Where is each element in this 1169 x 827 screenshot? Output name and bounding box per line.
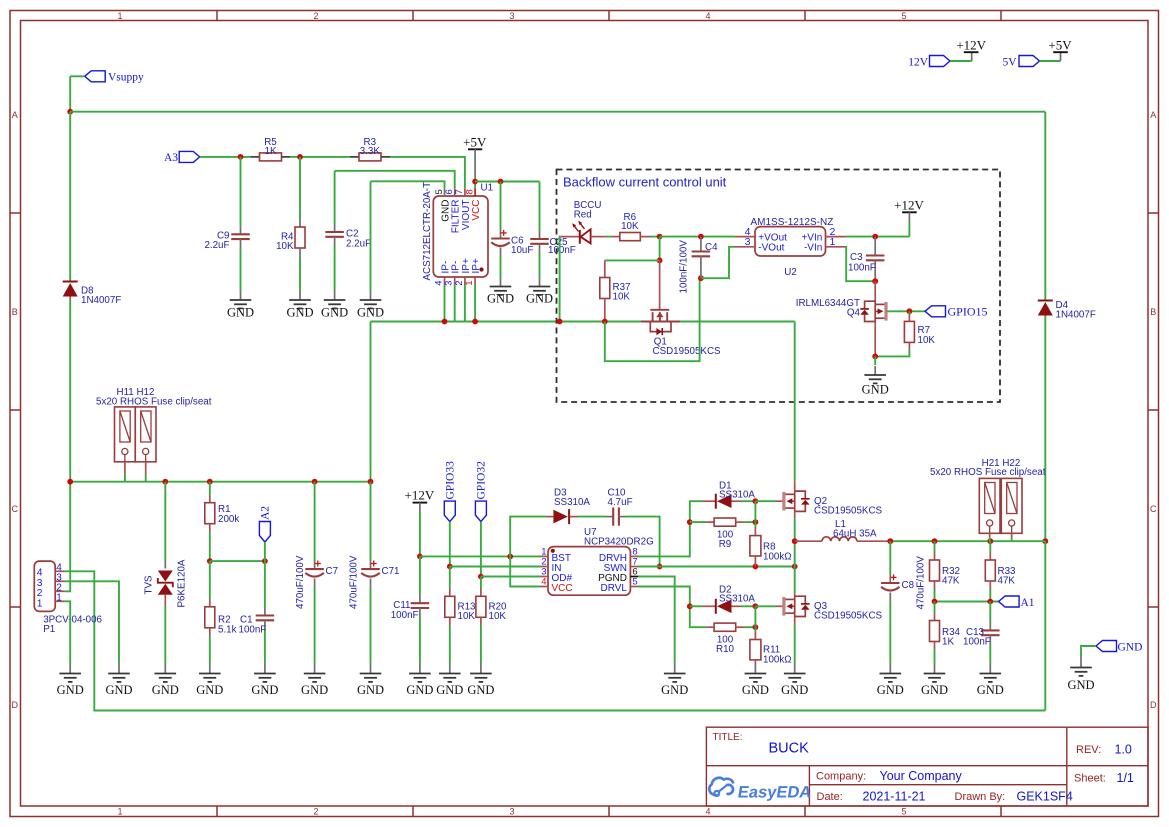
wire DRVL to gate loop — [638, 587, 706, 628]
svg-text:5: 5 — [632, 577, 637, 588]
node junction SWN switch column — [792, 564, 798, 570]
node junction L1 left — [792, 538, 798, 544]
svg-text:10K: 10K — [613, 292, 631, 303]
svg-text:3: 3 — [509, 11, 514, 21]
wire GPIO33 to IN — [449, 522, 451, 567]
wire top supply rail — [70, 111, 1045, 113]
ground P1 pin3 — [118, 664, 120, 674]
label C7 470uF/100V — [295, 555, 338, 609]
svg-text:+12V: +12V — [956, 38, 986, 53]
svg-text:SS310A: SS310A — [554, 497, 590, 508]
U1 pin numbers 5 6 7 8 — [434, 189, 476, 194]
svg-text:A2: A2 — [260, 506, 272, 520]
label D2 SS310A — [719, 584, 755, 604]
wire H11 lead to input rail — [124, 462, 126, 482]
wire led cathode down to sense path — [559, 237, 562, 322]
svg-text:2.2uF: 2.2uF — [204, 240, 229, 251]
label C4 100nF/100V — [679, 240, 719, 294]
wire GPIO32 to OD# — [480, 522, 482, 577]
node junction R9 left — [687, 519, 693, 525]
wire to Q3 gate — [755, 605, 776, 607]
svg-text:10K: 10K — [489, 611, 507, 622]
svg-text:1/1: 1/1 — [1117, 771, 1134, 785]
resistor R37 — [600, 260, 610, 321]
label C13 100nF — [963, 627, 991, 648]
node junction R33 tap — [987, 538, 993, 544]
svg-text:10K: 10K — [458, 611, 476, 622]
wire D8 branch down — [69, 112, 71, 282]
wire 12V flag to +12V — [950, 60, 972, 62]
node junction R10 out — [753, 624, 759, 630]
svg-text:10uF: 10uF — [511, 245, 533, 256]
svg-text:VCC: VCC — [552, 583, 573, 594]
node junction pin4 path — [442, 319, 448, 325]
ground under C9 — [240, 291, 242, 300]
resistor R11 — [750, 627, 761, 663]
net flag A2 — [259, 506, 271, 561]
capacitor C11 — [411, 556, 430, 663]
svg-text:GND: GND — [1067, 678, 1094, 692]
power symbol +12V at U7 — [405, 488, 435, 557]
svg-text:1: 1 — [830, 236, 836, 248]
node junction R9 out — [753, 519, 759, 525]
resistor R8 — [750, 522, 761, 566]
wire IN net — [450, 566, 541, 568]
diode D1 — [702, 494, 755, 509]
svg-text:C: C — [1150, 504, 1157, 514]
wire R5 to R3 — [290, 156, 350, 158]
node junction C71 rail — [368, 479, 374, 485]
svg-text:IP+: IP+ — [471, 258, 482, 273]
U7 right pin stubs — [630, 556, 638, 586]
resistor R7 — [875, 311, 914, 356]
wire H21 lead to rail — [989, 533, 992, 541]
resistor R5 — [251, 153, 290, 161]
svg-text:1: 1 — [56, 592, 62, 603]
wire BST branch up to D3 — [510, 517, 546, 557]
svg-text:3: 3 — [745, 236, 751, 248]
regulator U2 AM1SS-1212S-NZ body — [755, 227, 826, 256]
U1 pin names IP- IP- IP+ IP+ — [440, 258, 482, 273]
label C8 470uF/100V — [902, 556, 927, 610]
svg-text:Drawn By:: Drawn By: — [955, 791, 1006, 803]
node junction Q1 drain R37 — [657, 258, 663, 264]
node junction gate R7 — [907, 308, 913, 314]
fuse clip H11 — [115, 407, 136, 462]
diode D4 — [1038, 301, 1053, 316]
wire bottom return rail — [65, 571, 1045, 710]
svg-text:GND: GND — [152, 683, 179, 697]
svg-text:GND: GND — [251, 683, 278, 697]
label C2 2.2uF — [346, 229, 371, 250]
node junction Q4 source — [872, 354, 878, 360]
svg-text:GND: GND — [742, 683, 769, 697]
svg-text:5: 5 — [901, 11, 906, 21]
wire SWN net — [638, 566, 795, 568]
svg-text:1.0: 1.0 — [1115, 743, 1132, 757]
U2 pin names — [758, 232, 822, 253]
U7 pin numbers left 1 2 3 4 — [541, 546, 546, 587]
svg-text:+5V: +5V — [1048, 38, 1072, 53]
wire P1 pin3 to ground — [65, 581, 119, 663]
svg-text:10K: 10K — [918, 335, 936, 346]
title block — [706, 727, 1148, 806]
label R1 200k — [218, 504, 239, 525]
svg-text:470uF/100V: 470uF/100V — [916, 556, 927, 610]
wire +5V to C6 C25 — [475, 181, 539, 183]
resistor R2 — [205, 561, 215, 663]
wire D4 to output rail — [1044, 316, 1046, 542]
svg-text:CSD19505KCS: CSD19505KCS — [814, 610, 883, 621]
svg-text:64uH 35A: 64uH 35A — [833, 529, 877, 540]
label D4 1N4007F — [1056, 300, 1096, 321]
svg-text:GND: GND — [406, 683, 433, 697]
resistor R9 — [706, 518, 755, 526]
capacitor C4 — [692, 237, 711, 279]
fuse clip H12 — [135, 407, 156, 462]
ground pin5 branch — [370, 291, 372, 300]
svg-text:C3: C3 — [850, 252, 863, 263]
svg-text:5x20 RHOS Fuse clip/seat: 5x20 RHOS Fuse clip/seat — [930, 467, 1046, 478]
ground backflow — [874, 366, 876, 375]
ground under C2 — [334, 291, 336, 300]
wire D2 left branch — [690, 605, 702, 607]
label R8 100kOhm — [763, 542, 792, 563]
svg-text:SS310A: SS310A — [719, 490, 755, 501]
svg-text:Backflow current control unit: Backflow current control unit — [563, 175, 727, 190]
U7 pin names right — [598, 553, 627, 594]
svg-text:GND: GND — [357, 306, 384, 320]
ground under PGND — [674, 664, 676, 674]
diode D8 — [63, 282, 78, 301]
label C71 470uF/100V — [349, 555, 400, 609]
capacitor C3 — [866, 237, 885, 282]
label C6 10uF — [511, 236, 533, 257]
wire R1 bottom to C1 — [210, 560, 265, 562]
wire H22 lead to rail — [1011, 533, 1013, 541]
svg-text:+12V: +12V — [405, 488, 435, 503]
U1 pin names GND FILTER VIOUT VCC — [440, 200, 482, 234]
wire DRVH to gate loop — [638, 501, 702, 556]
transistor Q3 CSD19505KCS — [776, 594, 810, 626]
svg-text:A3: A3 — [164, 152, 178, 164]
svg-text:GND: GND — [1118, 641, 1143, 653]
label R5 1K — [264, 137, 277, 157]
svg-text:1N4007F: 1N4007F — [81, 295, 121, 306]
capacitor C13 — [981, 602, 1000, 664]
svg-text:GND: GND — [301, 683, 328, 697]
title block texts — [713, 732, 1134, 804]
svg-text:47K: 47K — [942, 576, 960, 587]
wire input rail — [70, 481, 370, 483]
net flag A1 — [999, 596, 1035, 609]
wire D3 to C10 — [578, 516, 606, 518]
ground under R20 — [480, 664, 482, 674]
ground under Q3 — [794, 664, 796, 674]
svg-text:GPIO32: GPIO32 — [476, 461, 488, 500]
wire A3 to R5 — [200, 156, 251, 158]
capacitor C71 — [361, 482, 380, 664]
ground under R11 — [754, 664, 756, 674]
svg-text:GND: GND — [105, 683, 132, 697]
wire to Q2 gate — [755, 500, 776, 502]
wire R6 to C4 and U2 — [660, 236, 735, 238]
svg-text:GND: GND — [877, 683, 904, 697]
node junction C9 tap — [238, 154, 244, 160]
svg-text:VCC: VCC — [471, 200, 482, 221]
svg-text:-VOut: -VOut — [758, 243, 784, 254]
svg-text:100kΩ: 100kΩ — [763, 654, 792, 665]
wire C2 to U1 pin6 — [335, 171, 455, 189]
wire path down to input rail — [370, 322, 372, 482]
svg-text:1N4007F: 1N4007F — [1056, 310, 1096, 321]
svg-text:100nF: 100nF — [548, 245, 576, 256]
TVS diode P6KE120A — [158, 571, 173, 664]
U1 bottom pin stubs — [445, 277, 476, 285]
svg-text:47K: 47K — [998, 576, 1016, 587]
label R6 10K — [621, 212, 639, 232]
wire D1 to R9 vertical — [754, 501, 756, 522]
ground under TVS — [164, 664, 166, 674]
ground under R34 — [934, 664, 936, 674]
node junction D2 out — [753, 603, 759, 609]
power symbol +12V backflow — [894, 197, 924, 236]
svg-text:GND: GND — [487, 292, 514, 306]
wire D8 to P1 pin2 — [65, 300, 70, 591]
svg-text:A: A — [1150, 110, 1156, 120]
U7 left pin stubs — [541, 556, 549, 586]
svg-text:GND: GND — [977, 683, 1004, 697]
svg-text:A: A — [12, 110, 18, 120]
wire Q2 source to L1 node — [794, 518, 796, 594]
svg-text:U2: U2 — [784, 267, 797, 278]
resistor R10 — [706, 623, 755, 631]
svg-text:GND: GND — [286, 306, 313, 320]
svg-text:A1: A1 — [1021, 597, 1035, 609]
ground under R13 — [449, 664, 451, 674]
wire PGND to ground — [638, 577, 675, 664]
svg-text:1: 1 — [117, 11, 122, 21]
svg-text:10K: 10K — [621, 221, 639, 232]
svg-text:GND: GND — [467, 683, 494, 697]
svg-text:Date:: Date: — [817, 791, 843, 803]
resistor R13 — [445, 567, 455, 664]
ground under R4 — [299, 291, 301, 300]
svg-text:Company:: Company: — [816, 771, 866, 783]
svg-text:2: 2 — [313, 11, 318, 21]
svg-text:CSD19505KCS: CSD19505KCS — [653, 346, 722, 357]
label C11 100nF — [391, 600, 419, 621]
label D3 SS310A — [554, 487, 590, 508]
svg-text:1K: 1K — [265, 146, 277, 157]
svg-text:C: C — [12, 504, 19, 514]
label D8 1N4007F — [81, 286, 121, 307]
svg-text:C71: C71 — [382, 566, 400, 577]
resistor R20 — [476, 577, 486, 664]
wire top rail down to D4 — [1044, 112, 1046, 301]
EasyEDA logo — [709, 778, 813, 802]
svg-text:NCP3420DR2G: NCP3420DR2G — [584, 536, 654, 547]
fuse clip H22 — [1001, 478, 1022, 533]
svg-text:C7: C7 — [326, 566, 339, 577]
capacitor C10 — [606, 508, 626, 526]
svg-text:200k: 200k — [218, 514, 239, 525]
svg-text:GPIO15: GPIO15 — [948, 305, 988, 319]
wire U2 -VIn loop — [846, 247, 876, 281]
wire Q3 source to ground — [794, 625, 796, 663]
wire R9 left branch — [690, 521, 706, 523]
svg-text:D: D — [1150, 700, 1157, 710]
wire Vsuppy to main rail — [70, 75, 85, 77]
net flag 5V — [1002, 56, 1039, 69]
wire C10 to SWN — [626, 517, 660, 567]
svg-text:Sheet:: Sheet: — [1074, 773, 1106, 785]
inductor L1 — [795, 537, 891, 541]
P1 stub pin numbers — [56, 562, 62, 603]
wire 5V flag to +5V — [1040, 60, 1061, 62]
resistor R3 — [350, 153, 390, 161]
svg-text:5.1k: 5.1k — [218, 624, 237, 635]
node junction R32 tap — [932, 538, 938, 544]
node junction D8 column rail — [67, 479, 73, 485]
wire U2 +VIn to +12V — [846, 236, 910, 238]
node junction R33 C13 — [987, 599, 993, 605]
node junction R37 sense path — [602, 319, 608, 325]
svg-text:8: 8 — [464, 189, 475, 194]
transistor Q4 IRLML6344GT — [860, 281, 886, 356]
svg-text:100nF: 100nF — [848, 262, 876, 273]
label R4 10K — [276, 232, 294, 253]
label Q1 CSD19505KCS — [653, 337, 722, 358]
wire OD# net — [481, 576, 541, 578]
svg-text:Vsuppy: Vsuppy — [108, 72, 144, 84]
svg-text:GPIO33: GPIO33 — [445, 461, 457, 500]
node junction C3 top — [872, 234, 878, 240]
fuse clip H21 — [979, 478, 1000, 533]
transistor Q1 CSD19505KCS — [641, 260, 680, 335]
svg-text:GND: GND — [57, 683, 84, 697]
label C3 100nF — [848, 252, 876, 274]
diode D2 — [702, 599, 755, 614]
wire return path right vertical — [1044, 541, 1046, 710]
label U7 NCP3420DR2G — [584, 527, 654, 548]
capacitor C9 — [231, 157, 250, 291]
resistor R32 — [930, 541, 940, 601]
label R32 47K — [942, 566, 960, 587]
node junction C7 rail — [312, 479, 318, 485]
svg-text:Red: Red — [574, 210, 592, 221]
svg-text:CSD19505KCS: CSD19505KCS — [814, 505, 883, 516]
capacitor C2 — [325, 171, 344, 291]
node junction GPIO33 IN R13 — [447, 564, 453, 570]
transistor Q2 CSD19505KCS — [776, 482, 810, 518]
net flag GPIO33 — [444, 461, 456, 522]
U1 top pin stubs — [445, 188, 476, 196]
node junction C8 tap — [887, 538, 893, 544]
resistor R1 — [205, 482, 215, 561]
label R13 10K — [458, 601, 477, 622]
svg-text:GND: GND — [921, 683, 948, 697]
wire sense path down to Q2 — [794, 322, 796, 482]
node junction D1 out — [753, 498, 759, 504]
svg-text:470uF/100V: 470uF/100V — [349, 555, 360, 609]
ground under C13 — [989, 664, 991, 674]
net flag GND — [1096, 641, 1142, 654]
ground under GND flag — [1080, 656, 1082, 668]
svg-text:2: 2 — [313, 807, 318, 817]
svg-text:1: 1 — [37, 598, 43, 609]
wire current sense path — [371, 321, 795, 323]
connector P1 body — [34, 561, 55, 611]
wire H12 lead to input rail — [145, 462, 147, 482]
P1 inside pin numbers — [37, 568, 43, 610]
svg-text:+5V: +5V — [463, 134, 487, 149]
wire +5V to U1 pin8 — [474, 179, 476, 188]
svg-text:BUCK: BUCK — [769, 741, 810, 757]
wire U1 bottom pins to current path — [445, 285, 476, 322]
label R2 5.1k — [218, 615, 237, 636]
svg-text:GND: GND — [661, 683, 688, 697]
svg-text:GND: GND — [862, 383, 889, 397]
wire R3 to U1 pin7 — [390, 157, 465, 188]
wire P1 pin1 to ground — [65, 601, 70, 663]
node junction R6 out — [657, 234, 663, 240]
node junction D2 left — [687, 603, 693, 609]
svg-text:5V: 5V — [1002, 57, 1017, 69]
wire Q1 drain branch — [659, 237, 661, 261]
U7 pin names left — [552, 553, 573, 594]
label R11 100kOhm — [763, 645, 792, 666]
svg-text:C4: C4 — [705, 242, 718, 253]
svg-text:P1: P1 — [43, 624, 55, 635]
label 100 R10 — [716, 635, 735, 655]
node junction pin1 path — [472, 319, 478, 325]
node junction C4 bottom — [698, 275, 704, 281]
svg-text:D: D — [12, 700, 19, 710]
capacitor C7 — [305, 482, 324, 664]
wire A1 sense — [935, 601, 999, 603]
node junction R1 R2 — [207, 558, 213, 564]
label R3 3.3K — [360, 137, 381, 157]
svg-text:DRVL: DRVL — [601, 583, 628, 594]
label R33 47K — [998, 566, 1017, 587]
svg-text:+12V: +12V — [894, 197, 924, 212]
svg-text:U1: U1 — [481, 183, 494, 194]
svg-text:TITLE:: TITLE: — [713, 732, 743, 743]
label L1 64uH 35A — [833, 519, 877, 539]
wire GND flag to ground — [1081, 646, 1096, 656]
node junction R32 R34 — [932, 599, 938, 605]
op-amp U1 ACS712 body — [433, 196, 488, 277]
label IRLML6344GT Q4 — [796, 298, 861, 319]
label Q2 CSD19505KCS — [814, 496, 883, 517]
svg-text:4.7uF: 4.7uF — [608, 497, 633, 508]
svg-text:B: B — [12, 307, 18, 317]
label BCCU Red — [574, 200, 602, 220]
U2 pin numbers — [745, 226, 836, 248]
svg-text:C8: C8 — [902, 580, 915, 591]
svg-text:TVS: TVS — [144, 575, 155, 595]
power symbol +5V top right — [1048, 38, 1072, 62]
svg-text:Your Company: Your Company — [880, 769, 963, 783]
power symbol +12V top right — [956, 38, 986, 62]
ground under C71 — [370, 664, 372, 674]
wire Q4 gate to GPIO15 — [886, 310, 925, 312]
node junction TVS rail — [162, 479, 168, 485]
node junction A2 C1 — [262, 558, 268, 564]
label R34 1K — [942, 627, 961, 648]
wire BST net — [420, 555, 541, 557]
